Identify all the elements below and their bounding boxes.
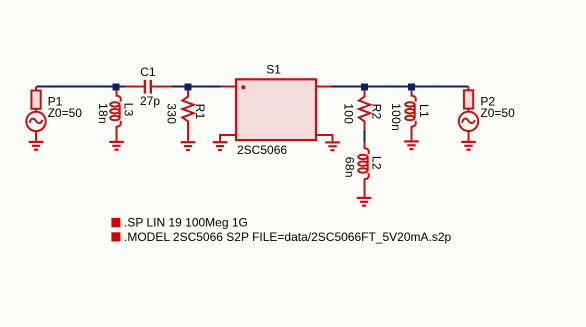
svg-text:Z0=50: Z0=50 xyxy=(48,106,83,120)
ground (L2) xyxy=(357,198,372,206)
resistor R1 xyxy=(182,90,193,141)
svg-text:C1: C1 xyxy=(140,65,156,79)
pin S1 top-left xyxy=(221,86,237,88)
inductor L2 xyxy=(358,142,369,197)
wire S1 to node3 xyxy=(332,86,363,88)
svg-text:.SP LIN 19 100Meg 1G: .SP LIN 19 100Meg 1G xyxy=(124,216,248,230)
wire node1 to C1 xyxy=(118,86,125,88)
pin S1 bottom-right xyxy=(316,135,333,141)
ground (S1 left) xyxy=(213,142,228,150)
wire C1 to node2 xyxy=(172,86,186,88)
node junction 1 (L3 tap) xyxy=(113,84,120,91)
ground (R1) xyxy=(181,142,196,150)
inductor L3 xyxy=(110,90,121,141)
svg-text:Z0=50: Z0=50 xyxy=(480,106,515,120)
s-parameter box S1 xyxy=(236,79,316,140)
inductor L1 xyxy=(405,90,416,140)
svg-text:27p: 27p xyxy=(140,94,160,108)
svg-text:2SC5066: 2SC5066 xyxy=(237,143,287,157)
pin1 dot (S1) xyxy=(241,85,245,89)
ground (S1 right) xyxy=(325,142,340,150)
wire R2 to L2 xyxy=(364,131,366,143)
node junction 3 (R2 tap) xyxy=(361,84,368,91)
svg-text:R2: R2 xyxy=(369,104,383,120)
node junction 4 (L1 tap) xyxy=(408,84,415,91)
ground (P1) xyxy=(29,142,44,150)
svg-text:S1: S1 xyxy=(266,63,281,77)
svg-text:100: 100 xyxy=(342,103,356,124)
capacitor C1 xyxy=(125,80,173,94)
pin S1 bottom-left xyxy=(220,135,235,141)
wire P1 to node1 xyxy=(37,86,115,88)
ground (P2) xyxy=(461,142,476,150)
node junction 2 (R1 tap) xyxy=(185,84,192,91)
svg-text:100n: 100n xyxy=(389,103,403,131)
wire node4 to P2 xyxy=(414,86,469,88)
wire node2 to S1 xyxy=(190,86,221,88)
wire node3 to node4 xyxy=(367,86,409,88)
simulation marker square 2 xyxy=(111,232,120,241)
svg-text:L2: L2 xyxy=(370,156,384,170)
svg-text:68n: 68n xyxy=(342,157,356,178)
ground (L3) xyxy=(109,142,124,150)
svg-text:18n: 18n xyxy=(96,103,110,124)
pin S1 top-right xyxy=(316,86,332,88)
simulation marker square 1 xyxy=(111,218,120,227)
svg-text:L1: L1 xyxy=(417,104,431,118)
svg-text:.MODEL 2SC5066 S2P FILE=data/2: .MODEL 2SC5066 S2P FILE=data/2SC5066FT_5… xyxy=(124,230,452,244)
port P2 xyxy=(459,87,478,141)
resistor R2 xyxy=(359,90,370,131)
svg-text:R1: R1 xyxy=(193,104,207,120)
svg-text:L3: L3 xyxy=(122,103,136,117)
port P1 xyxy=(26,87,45,141)
ground (L1) xyxy=(404,141,419,149)
svg-text:330: 330 xyxy=(165,103,179,124)
